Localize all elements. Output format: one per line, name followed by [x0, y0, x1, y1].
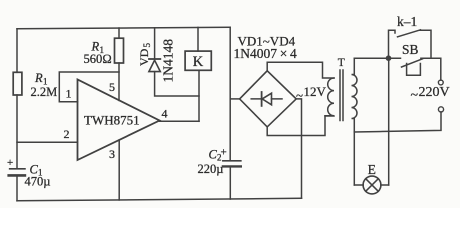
svg-text:4: 4	[162, 107, 168, 121]
wire K top lead	[197, 27, 199, 51]
bridge inner diode	[251, 98, 282, 100]
transformer T right winding	[352, 58, 358, 131]
svg-text:5: 5	[142, 43, 152, 48]
lamp E	[354, 184, 388, 186]
wire lamp right	[388, 58, 390, 185]
svg-text:2.2M: 2.2M	[31, 85, 58, 99]
pushbutton SB	[402, 59, 423, 76]
svg-text:5: 5	[109, 80, 115, 94]
node A junction dot	[386, 55, 392, 61]
contact k-1	[389, 30, 432, 58]
capacitor C2	[223, 160, 241, 162]
svg-text:K: K	[193, 54, 204, 70]
wire VD5 bottom lead	[155, 72, 199, 96]
svg-text:~: ~	[296, 87, 303, 102]
svg-text:+: +	[221, 147, 227, 159]
wire lamp left	[353, 132, 355, 185]
wire C2 bottom lead	[229, 166, 231, 199]
svg-text:1N4148: 1N4148	[160, 39, 175, 83]
wire top rail	[17, 27, 230, 29]
svg-text:VD: VD	[137, 48, 151, 66]
wire left frame lower	[16, 175, 18, 200]
wire neutral	[354, 112, 441, 132]
svg-text:1N4007 × 4: 1N4007 × 4	[234, 46, 298, 61]
bridge rectifier VD1-VD4 diamond	[240, 71, 297, 127]
wire left frame upper	[16, 29, 18, 73]
wire left frame middle	[16, 95, 18, 168]
svg-text:T: T	[338, 57, 345, 69]
svg-text:+: +	[7, 157, 13, 169]
svg-text:E: E	[368, 162, 376, 177]
svg-text:R: R	[34, 71, 43, 85]
svg-text:SB: SB	[402, 42, 418, 57]
diode VD5 body	[149, 58, 160, 60]
terminal ~220V bottom	[438, 107, 443, 112]
wire pin3	[118, 140, 120, 200]
svg-text:3: 3	[109, 147, 115, 161]
wire pin4	[160, 120, 200, 122]
wire bridge left stub	[230, 98, 239, 100]
resistor R1 560ohm	[115, 38, 124, 63]
transformer T left winding	[325, 78, 334, 116]
resistor R1 2.2M	[13, 72, 22, 95]
terminal ~220V top	[438, 80, 443, 85]
svg-text:2: 2	[64, 127, 70, 141]
svg-text:560Ω: 560Ω	[84, 52, 112, 66]
svg-text:220µ: 220µ	[198, 162, 224, 176]
wire K bottom lead	[198, 70, 200, 121]
transformer core	[340, 70, 343, 121]
wire C2 drop from rail	[229, 27, 231, 160]
svg-text:~: ~	[411, 88, 419, 103]
svg-text:470µ: 470µ	[25, 174, 51, 188]
svg-text:220V: 220V	[419, 85, 450, 100]
svg-text:k–1: k–1	[397, 14, 417, 29]
wire pin2	[17, 141, 77, 143]
wire bridge right to ground	[296, 99, 301, 198]
wire bridge top to transformer	[267, 62, 334, 78]
wire bridge bottom to transformer	[267, 116, 334, 136]
svg-text:1: 1	[66, 87, 72, 101]
wire node A horizontal	[354, 57, 400, 59]
svg-text:12V: 12V	[304, 84, 327, 99]
svg-text:TWH8751: TWH8751	[84, 112, 140, 127]
wire pin5 vertical	[118, 63, 120, 100]
capacitor C1	[10, 168, 25, 170]
op-amp U TWH8751 triangle	[78, 80, 160, 161]
diode VD5 top lead	[154, 28, 156, 59]
wire bottom rail	[17, 198, 302, 201]
resistor R1 560 top lead	[118, 28, 120, 38]
wire SB right lead to terminal	[421, 58, 441, 80]
wire pin1 hook	[59, 72, 119, 102]
relay K box	[185, 51, 211, 70]
